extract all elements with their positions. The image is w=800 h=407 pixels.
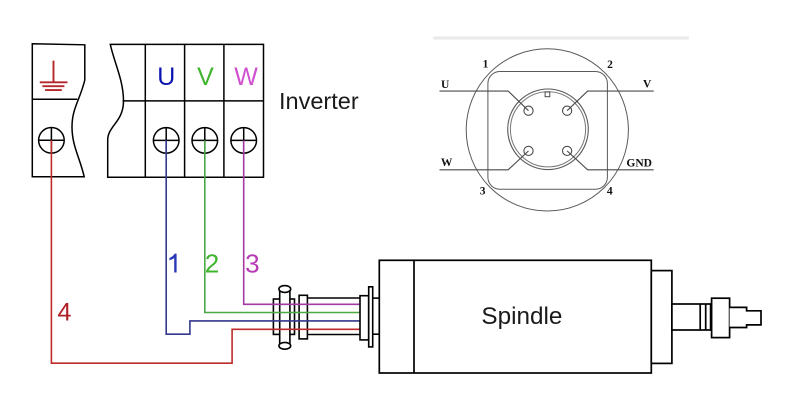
terminal screw U [153,128,179,154]
svg-text:2: 2 [607,59,613,71]
svg-text:3: 3 [480,185,486,197]
spindle body cap line [413,260,415,373]
wire 4 red ground [51,140,360,363]
ground terminal block outline [32,44,85,177]
spindle shaft [672,304,711,330]
svg-text:3: 3 [245,249,259,279]
wire 3 magenta W [244,140,360,304]
lead U to pin1 [440,91,529,111]
svg-text:2: 2 [205,249,219,279]
connector pin 1 [524,106,533,115]
shaft tip [730,307,761,327]
clamp cylinder body [280,289,290,346]
terminal screw W [231,128,257,154]
svg-text:Spindle: Spindle [481,303,562,330]
svg-text:V: V [643,79,652,91]
inverter block vertical divider 2 [184,44,186,177]
wire label 1 [169,254,176,273]
ground terminal screw [39,128,65,154]
clamp cylinder top cap [279,286,291,293]
neck bottom edge [373,333,380,335]
svg-text:W: W [234,63,258,91]
spindle connector plate [369,287,373,347]
shaft collar [712,298,730,337]
wire 2 green V [205,140,360,312]
connector barrel top edge [307,297,360,299]
faint artifact streak [433,36,689,39]
lead V to pin2 [567,91,654,111]
spindle connector flange [360,296,369,340]
svg-text:4: 4 [58,299,72,327]
connector nut [299,295,307,339]
svg-text:GND: GND [626,158,652,170]
connector pin 4 [563,146,572,155]
ground block divider line [32,98,77,100]
cable sleeve [273,299,294,334]
connector barrel bottom edge [307,334,360,336]
svg-text:U: U [441,79,450,91]
inverter block vertical divider 3 [223,44,225,177]
svg-text:W: W [441,157,453,169]
connector inner ring outer [508,89,589,170]
clamp cylinder bottom cap [279,342,291,349]
connector key square [545,92,550,97]
lead GND to pin4 [567,151,654,170]
terminal screw V [192,128,218,154]
ground symbol [40,61,68,91]
svg-text:4: 4 [607,185,613,197]
svg-text:Inverter: Inverter [279,88,359,114]
spindle body [379,260,651,373]
connector pin 3 [524,146,533,155]
wire 1 blue U [166,140,360,334]
inverter block vertical divider 1 [144,44,146,177]
inverter block horizontal divider [123,100,264,102]
svg-text:1: 1 [483,59,489,71]
connector rounded square [488,72,608,190]
connector outer circle [466,49,628,211]
svg-text:U: U [157,63,175,91]
inverter terminal block outline [108,44,264,177]
shaft ring line 1 [699,304,701,330]
svg-text:V: V [197,63,214,91]
neck top edge [373,297,380,299]
lead W to pin3 [440,151,529,170]
connector inner ring inner [510,92,585,167]
shaft ring line 2 [705,304,707,330]
spindle right flange [651,271,672,364]
connector pin 2 [563,106,572,115]
